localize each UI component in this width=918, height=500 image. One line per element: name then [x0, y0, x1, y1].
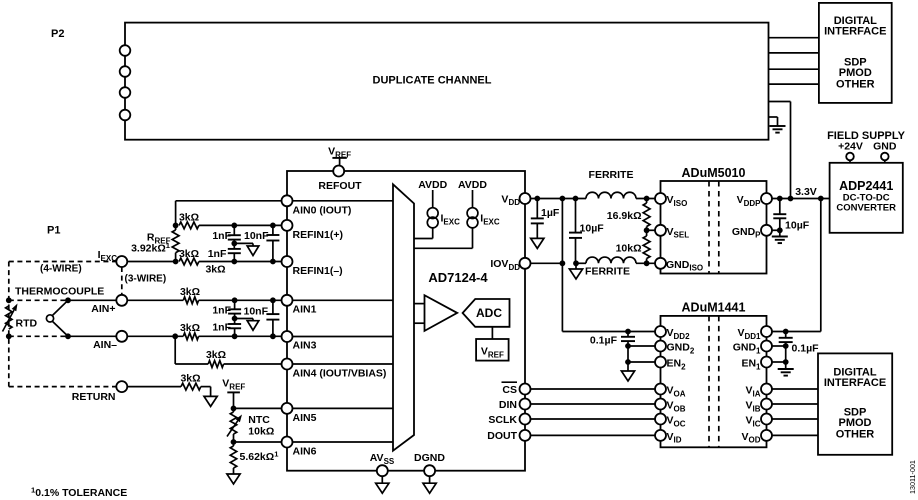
junction AIN-/AIN4 branch	[172, 333, 178, 339]
wire AIN6 to mux	[293, 441, 394, 443]
svg-text:EN2: EN2	[667, 358, 687, 372]
wire RETURN to 3k	[127, 386, 181, 388]
pin AIN- (P1)	[93, 331, 127, 351]
wire VOD to digital interface	[772, 434, 818, 436]
svg-text:+24V: +24V	[838, 140, 863, 152]
svg-text:ADuM1441: ADuM1441	[682, 301, 746, 315]
junction GND2/0.1uF	[625, 343, 631, 349]
resistor 3kOhm (AIN-)	[180, 322, 200, 340]
svg-text:AIN–: AIN–	[93, 339, 117, 351]
pin VDD1	[737, 326, 772, 341]
svg-text:VOC: VOC	[667, 415, 686, 429]
pin VOA	[655, 384, 686, 399]
capacitor 0.1uF (VDD2)	[590, 332, 635, 347]
ADuM1441 isolation barrier dashed lines	[709, 316, 719, 447]
ADuM5010 isolation barrier dashed lines	[709, 181, 719, 274]
wire IEXC1 to mux	[414, 228, 433, 238]
resistor 16.9kOhm	[607, 199, 650, 231]
thermocouple label	[15, 286, 104, 298]
pin IEXC (P1)	[98, 249, 128, 267]
pin VISO	[655, 193, 687, 208]
dashed wire thermocouple-	[9, 335, 68, 337]
ground at RETURN	[204, 396, 217, 406]
svg-text:REFIN1(+): REFIN1(+)	[293, 229, 343, 241]
svg-text:3kΩ: 3kΩ	[205, 264, 225, 276]
junction AIN+ node	[65, 297, 71, 303]
svg-text:1µF: 1µF	[541, 207, 560, 219]
pin VOB	[655, 399, 686, 414]
wire IEXC to RREF node	[68, 299, 116, 301]
pin EN2	[655, 357, 686, 372]
svg-text:13011-001: 13011-001	[908, 460, 917, 494]
svg-text:10nF: 10nF	[244, 230, 269, 242]
current source IEXC 2	[467, 208, 500, 228]
wire AIN0 to mux	[293, 200, 394, 202]
junction REFIN 1nF midpoint	[231, 241, 237, 247]
dashed wire thermocouple+	[9, 299, 68, 301]
wire GND2	[628, 345, 655, 347]
3.3V rail wire	[772, 198, 830, 200]
current source IEXC 1	[427, 208, 460, 228]
svg-text:1nF: 1nF	[212, 230, 231, 242]
wire SCLK to VOC	[531, 418, 656, 420]
svg-text:3.92kΩ1: 3.92kΩ1	[131, 241, 171, 254]
svg-text:10µF: 10µF	[580, 223, 605, 235]
resistor 3kOhm (REFIN1+)	[179, 212, 199, 229]
junction VDD/10uF	[573, 196, 579, 202]
junction EN1	[783, 359, 789, 365]
svg-text:CS: CS	[502, 384, 517, 396]
svg-text:CONVERTER: CONVERTER	[836, 203, 896, 214]
ADC core block	[463, 299, 510, 327]
pin RETURN (P1)	[72, 381, 128, 403]
wire DOUT to VID	[531, 434, 656, 436]
svg-text:ADuM5010: ADuM5010	[682, 166, 746, 180]
pin GNDISO	[655, 258, 703, 273]
svg-text:(4-WIRE): (4-WIRE)	[40, 264, 82, 275]
svg-text:THERMOCOUPLE: THERMOCOUPLE	[15, 286, 104, 298]
pin REFIN1(-)	[282, 256, 343, 277]
ground at REFIN filter	[234, 243, 258, 255]
svg-text:VIA: VIA	[745, 385, 760, 399]
dashed wire 3-wire option	[121, 267, 123, 295]
svg-text:ADC: ADC	[476, 306, 502, 320]
svg-text:3kΩ: 3kΩ	[180, 322, 200, 334]
digital interface text (top)	[824, 15, 886, 91]
svg-text:10kΩ: 10kΩ	[616, 243, 642, 255]
svg-text:10µF: 10µF	[785, 220, 810, 232]
capacitor 10uF (VISO)	[569, 199, 604, 264]
wire 3k to ground (RETURN)	[201, 387, 211, 397]
pin VSEL	[655, 225, 689, 240]
junction VDD/1uF	[534, 196, 540, 202]
multiplexer	[393, 184, 414, 450]
svg-text:VSEL: VSEL	[667, 226, 690, 240]
capacitor 10nF (AIN1/AIN3)	[244, 300, 280, 336]
svg-text:P1: P1	[47, 225, 60, 237]
sensor dashed loop left	[8, 262, 10, 387]
svg-text:IEXC: IEXC	[480, 213, 500, 227]
wire AIN- filter to AIN3	[199, 335, 282, 337]
resistor 3kOhm (AIN4)	[206, 349, 226, 367]
wire VDD rail to ferrite	[531, 198, 587, 200]
svg-text:VIB: VIB	[745, 400, 760, 414]
wire AIN- lead	[68, 335, 183, 337]
(3-WIRE) label	[125, 274, 167, 285]
wire GNDP	[772, 229, 780, 231]
svg-text:0.1µF: 0.1µF	[590, 335, 618, 347]
wire VDD to ADuM1441 VDD2	[562, 199, 655, 332]
dc-to-dc converter U4 ADP2441	[830, 163, 903, 233]
ground at GNDISO rail	[569, 263, 582, 279]
junction REFIN1- wire/1nF	[231, 259, 237, 265]
(4-WIRE) label	[40, 264, 82, 275]
svg-text:AIN4 (IOUT/VBIAS): AIN4 (IOUT/VBIAS)	[293, 368, 387, 380]
wire VIA to digital interface	[772, 388, 818, 390]
digital interface block (top)	[819, 3, 892, 103]
junction 3.3V/10uF	[777, 196, 783, 202]
internal VREF block	[476, 339, 509, 361]
capacitor 1nF (REFIN lower)	[208, 243, 241, 261]
pin REFOUT	[318, 166, 362, 193]
svg-text:AIN+: AIN+	[91, 303, 115, 315]
ground at 5.62k	[227, 474, 240, 484]
capacitor 10nF (REFIN)	[244, 225, 279, 261]
svg-text:VIC: VIC	[745, 415, 760, 429]
svg-text:FERRITE: FERRITE	[585, 266, 630, 278]
wire duplicate channel to digital interface 3	[769, 68, 819, 70]
duplicate channel title	[373, 75, 492, 87]
wire duplicate channel to digital interface 2	[769, 52, 819, 54]
wire IEXC to RREF bottom	[127, 261, 175, 263]
node AVDD label 2	[458, 179, 487, 207]
junction GNDP/10uF	[777, 227, 783, 233]
capacitor 10uF (VDDP)	[773, 199, 809, 232]
pin AIN0 (IOUT)	[282, 195, 352, 216]
pin GNDP	[732, 225, 772, 240]
GND terminal label	[873, 140, 897, 152]
svg-text:NTC: NTC	[248, 414, 270, 426]
wire AIN1 to mux	[293, 299, 394, 301]
svg-text:GNDP: GNDP	[732, 226, 761, 240]
pin DIN	[499, 399, 531, 411]
svg-text:OTHER: OTHER	[836, 429, 875, 441]
svg-text:AIN6: AIN6	[293, 446, 317, 458]
ground (earth) at GNDP	[772, 230, 788, 243]
junction REFIN1+ wire/1nF	[231, 223, 237, 229]
junction RREF top node	[173, 223, 179, 229]
resistor 3kOhm (REFIN1-)	[179, 248, 199, 265]
wire VIB to digital interface	[772, 403, 818, 405]
wire AIN3 to mux	[293, 336, 394, 338]
svg-text:IEXC: IEXC	[441, 213, 461, 227]
junction VSEL divider	[644, 227, 650, 233]
svg-text:DUPLICATE CHANNEL: DUPLICATE CHANNEL	[373, 75, 492, 87]
svg-text:3kΩ: 3kΩ	[206, 349, 226, 361]
pin VOD	[741, 430, 772, 445]
wire ferrite to VISO	[636, 198, 655, 200]
capacitor 0.1uF (VDD1)	[779, 332, 819, 355]
junction VDD2/0.1uF	[625, 329, 631, 335]
sensor dashed wire to RETURN	[9, 386, 116, 388]
junction AIN5/NTC top	[231, 406, 237, 412]
capacitor 1nF (AIN3 lower)	[212, 319, 241, 337]
svg-text:ADP2441: ADP2441	[839, 179, 893, 193]
wire AIN+ to filter	[127, 299, 183, 301]
wire NTC to AIN5	[234, 407, 282, 409]
resistor 3kOhm (AIN+)	[180, 286, 200, 304]
svg-text:AIN3: AIN3	[293, 340, 317, 352]
svg-text:10.1% TOLERANCE: 10.1% TOLERANCE	[31, 486, 127, 499]
junction VDD/VDD2 feed	[560, 196, 566, 202]
svg-text:VDD: VDD	[501, 193, 520, 207]
svg-text:1nF: 1nF	[208, 248, 227, 260]
pin CS	[502, 382, 531, 396]
svg-text:VDDP: VDDP	[737, 194, 762, 208]
PGA amplifier	[425, 295, 458, 331]
pin AIN6	[282, 437, 317, 458]
wire 3k to REFIN1- pin	[199, 261, 282, 263]
ferrite bead bottom	[576, 257, 655, 277]
P2 connector pins on duplicate channel	[120, 45, 131, 120]
wire 3.3V to ADuM1441 VDD1	[772, 199, 821, 332]
wire AIN5 to mux	[293, 407, 394, 409]
svg-text:FERRITE: FERRITE	[589, 169, 634, 181]
connector P2 label	[51, 28, 64, 40]
wire CS to VOA	[531, 388, 656, 390]
junction VDD1/0.1uF	[783, 329, 789, 335]
svg-text:(3-WIRE): (3-WIRE)	[125, 274, 167, 285]
svg-text:DIN: DIN	[499, 399, 517, 411]
svg-text:REFOUT: REFOUT	[318, 180, 362, 192]
wire NTC to AIN6	[234, 441, 282, 443]
pin AIN3	[282, 331, 317, 352]
pin AIN1	[282, 295, 317, 316]
svg-text:IEXC: IEXC	[98, 249, 118, 263]
wire DIN to VOB	[531, 403, 656, 405]
pin VDD2	[655, 326, 690, 341]
svg-text:GND: GND	[873, 140, 897, 152]
node VREF supply terminal (NTC)	[222, 378, 245, 409]
ground DGND	[423, 476, 436, 493]
svg-text:AIN1: AIN1	[293, 303, 317, 315]
ground at 1uF	[531, 238, 544, 248]
isolator U3 ADuM1441	[661, 316, 767, 447]
thermocouple junction bead	[46, 300, 68, 336]
ground AVSS	[376, 476, 389, 493]
junction AIN1 wire/1nF	[232, 297, 238, 303]
svg-text:VISO: VISO	[667, 194, 688, 208]
wire 3k to REFIN1+ pin	[199, 224, 282, 226]
svg-text:AIN5: AIN5	[293, 412, 317, 424]
pin AIN+ (P1)	[91, 295, 127, 315]
isolator U2 ADuM5010	[661, 181, 767, 274]
pin VIC	[745, 414, 772, 429]
junction GNDISO/10uF ground	[573, 260, 579, 266]
svg-text:3kΩ: 3kΩ	[180, 373, 200, 385]
GND terminal	[881, 153, 889, 163]
svg-text:GND2: GND2	[667, 342, 695, 356]
svg-text:3kΩ: 3kΩ	[180, 286, 200, 298]
svg-text:3kΩ: 3kΩ	[179, 212, 199, 224]
junction AIN3 wire/1nF	[232, 333, 238, 339]
svg-text:DOUT: DOUT	[487, 430, 517, 442]
junction REFIN1- wire/10nF	[270, 259, 276, 265]
digital interface block (bottom)	[818, 353, 892, 454]
wire divider to VSEL	[647, 229, 655, 231]
svg-text:REFIN1(–): REFIN1(–)	[293, 265, 343, 277]
junction VISO/16.9k	[644, 196, 650, 202]
svg-text:IOVDD: IOVDD	[490, 258, 520, 272]
wire IOVDD to VDD net	[531, 262, 563, 264]
junction 1nF midpoint	[232, 316, 238, 322]
wire mux to PGA -	[414, 322, 425, 324]
digital interface text (bottom)	[824, 367, 886, 441]
pin VIB	[745, 399, 772, 414]
resistor RREF 3.92kOhm	[131, 225, 179, 261]
svg-text:RETURN: RETURN	[72, 391, 116, 403]
pin DOUT	[487, 430, 530, 442]
svg-text:VDD1: VDD1	[737, 327, 761, 341]
junction IOVDD tap	[560, 260, 566, 266]
pin GND2	[655, 341, 695, 356]
ADC U1 AD7124-4 outline	[287, 171, 525, 471]
svg-text:VREF: VREF	[481, 346, 504, 360]
pin VOC	[655, 414, 686, 429]
wire AIN4 branch	[175, 336, 208, 364]
capacitor 1uF (VDD)	[531, 199, 560, 239]
svg-text:AD7124-4: AD7124-4	[428, 270, 488, 285]
svg-text:3kΩ: 3kΩ	[179, 248, 199, 260]
wire duplicate channel to digital interface 1	[769, 37, 819, 39]
+24V terminal label	[838, 140, 863, 152]
svg-text:DGND: DGND	[414, 452, 445, 464]
wire AIN+ filter to AIN1	[199, 299, 282, 301]
svg-text:OTHER: OTHER	[836, 79, 875, 91]
wire EN2	[628, 361, 655, 363]
wire duplicate channel to digital interface 4	[769, 83, 819, 85]
svg-text:5.62kΩ1: 5.62kΩ1	[240, 450, 280, 463]
svg-text:VDD2: VDD2	[667, 327, 691, 341]
svg-text:VOA: VOA	[667, 385, 686, 399]
pin SCLK	[488, 414, 530, 426]
svg-text:10nF: 10nF	[244, 306, 269, 318]
pin IOVDD	[490, 258, 530, 272]
svg-text:VOD: VOD	[741, 431, 760, 445]
resistor 3kOhm (RETURN)	[180, 373, 200, 390]
node VREF supply terminal above REFOUT	[328, 146, 351, 166]
svg-text:INTERFACE: INTERFACE	[824, 377, 886, 389]
wire AIN4 to mux	[293, 363, 394, 365]
ground (earth) at EN1/GND1	[778, 362, 794, 376]
ground at EN2/GND2	[621, 362, 634, 381]
ferrite bead top	[586, 169, 636, 199]
svg-text:SCLK: SCLK	[488, 414, 517, 426]
node 3.3V label	[795, 186, 817, 198]
wire AIN0 to RREF top	[176, 201, 282, 226]
pin AIN5	[282, 403, 317, 424]
junction RREF bottom node	[173, 259, 179, 265]
ground at AIN1/AIN3 filter	[235, 319, 259, 331]
wire ADC to VREF box	[491, 327, 493, 339]
thermistor NTC 10kOhm	[227, 408, 274, 442]
junction AIN- node	[65, 333, 71, 339]
svg-text:AIN0 (IOUT): AIN0 (IOUT)	[293, 204, 352, 216]
svg-text:VREF: VREF	[222, 378, 245, 392]
pin AVSS	[370, 452, 395, 476]
field supply label	[827, 130, 905, 142]
svg-text:AVDD: AVDD	[458, 179, 487, 191]
junction 3.3V/ADuM1441 VDD1 feed	[818, 196, 824, 202]
tolerance footnote	[31, 486, 127, 499]
thermocouple lower terminal	[6, 333, 12, 339]
pin AIN4 (IOUT/VBIAS)	[282, 359, 387, 380]
junction 3.3V/duplicate-channel feed	[788, 196, 794, 202]
wire GND1	[772, 345, 786, 347]
wire duplicate channel to 3.3V rail	[769, 102, 791, 199]
svg-text:EN1: EN1	[741, 358, 761, 372]
pin EN1	[741, 357, 772, 372]
ADP2441 text	[836, 179, 896, 214]
svg-text:VOB: VOB	[667, 400, 686, 414]
resistor 5.62kOhm	[230, 442, 279, 474]
RTD element	[3, 304, 38, 332]
svg-text:PMOD: PMOD	[839, 417, 872, 429]
node AVDD label 1	[418, 179, 447, 207]
pin VDD	[501, 193, 530, 207]
junction GNDISO/10k	[644, 260, 650, 266]
ADuM5010 title	[682, 166, 746, 180]
capacitor 1nF (REFIN upper)	[212, 225, 240, 243]
svg-text:GNDISO: GNDISO	[666, 259, 703, 273]
svg-text:P2: P2	[51, 28, 64, 40]
svg-text:AVSS: AVSS	[370, 452, 395, 466]
ADuM1441 title	[682, 301, 746, 315]
resistor 10kOhm	[616, 230, 650, 263]
svg-text:AVDD: AVDD	[418, 179, 447, 191]
svg-text:16.9kΩ: 16.9kΩ	[607, 210, 642, 222]
junction REFIN1+ wire/10nF	[270, 223, 276, 229]
pin DGND	[414, 452, 445, 476]
wire EN1	[772, 361, 786, 363]
wire IEXC2 to mux	[414, 228, 473, 248]
capacitor 1nF (AIN1 upper)	[212, 300, 241, 318]
svg-text:INTERFACE: INTERFACE	[824, 26, 886, 38]
svg-text:3.3V: 3.3V	[795, 186, 817, 198]
pin VDDP	[737, 193, 772, 208]
3kOhm label below REFIN1- wire	[205, 264, 225, 276]
figure number 13011-001	[908, 460, 917, 494]
junction AIN6/NTC bottom	[231, 439, 237, 445]
junction GND1/0.1uF	[783, 343, 789, 349]
sensor dashed wire to IEXC	[9, 261, 116, 263]
wire 3k to AIN4 pin	[224, 363, 282, 365]
thermocouple upper terminal	[6, 297, 12, 303]
wire VIC to digital interface	[772, 418, 818, 420]
junction EN2	[625, 359, 631, 365]
svg-text:0.1µF: 0.1µF	[792, 343, 820, 355]
svg-text:1nF: 1nF	[212, 305, 231, 317]
svg-text:PMOD: PMOD	[839, 67, 872, 79]
svg-text:10kΩ: 10kΩ	[248, 426, 274, 438]
pin VID	[655, 430, 682, 445]
duplicate channel block	[125, 23, 769, 140]
svg-text:1nF: 1nF	[212, 322, 231, 334]
junction AIN1 wire/10nF	[270, 297, 276, 303]
svg-text:VID: VID	[667, 431, 682, 445]
AD7124-4 title	[428, 270, 488, 285]
wire GND2 to EN2	[627, 346, 629, 362]
